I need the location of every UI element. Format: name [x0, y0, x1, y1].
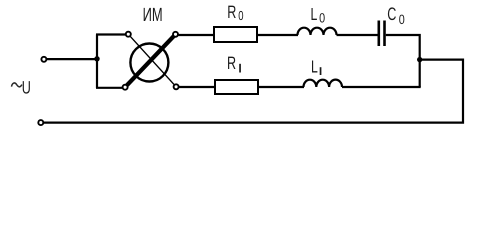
wire [47, 58, 97, 60]
svg-text:0: 0 [238, 8, 243, 23]
motor M1 winding terminal bottom-right [174, 84, 179, 89]
label C0 [387, 4, 405, 27]
motor M1 winding terminal bottom-left [123, 85, 128, 90]
resistor R0 [214, 27, 257, 42]
inductor L1 [304, 80, 343, 87]
source terminal top [41, 57, 46, 62]
node junction left [94, 56, 99, 61]
wire [178, 34, 214, 36]
wire [96, 87, 122, 89]
capacitor C0 right plate [383, 21, 386, 47]
motor winding thin diagonal [130, 36, 174, 84]
wire [337, 34, 378, 36]
source terminal bottom [38, 120, 43, 125]
resistor R1 [215, 80, 258, 94]
wire [179, 86, 215, 88]
wire [258, 86, 304, 88]
label ~U source [12, 78, 31, 98]
node junction right [417, 57, 422, 62]
svg-text:C: C [387, 4, 396, 24]
inductor L0 [298, 28, 337, 35]
label L0 [311, 4, 326, 26]
svg-text:L: L [311, 56, 318, 76]
svg-text:R: R [227, 2, 236, 22]
motor M1 winding terminal top-right [173, 32, 178, 37]
wire [386, 35, 420, 87]
svg-text:U: U [22, 78, 31, 98]
wire [44, 60, 463, 123]
svg-text:R: R [227, 53, 236, 73]
label R1 [227, 53, 241, 73]
wire [258, 34, 298, 36]
label L1 [311, 56, 321, 76]
wire [96, 33, 126, 35]
svg-text:0: 0 [399, 12, 405, 27]
capacitor C0 left plate [377, 21, 380, 47]
label R0 [227, 2, 243, 23]
svg-text:0: 0 [319, 10, 325, 25]
wire [342, 86, 421, 88]
motor winding thick diagonal [127, 36, 174, 85]
motor ИМ rotor circle [130, 44, 168, 82]
motor M1 winding terminal top-left [126, 32, 131, 37]
svg-text:ИМ: ИМ [143, 5, 163, 26]
svg-text:L: L [311, 4, 318, 24]
wire [96, 35, 98, 89]
